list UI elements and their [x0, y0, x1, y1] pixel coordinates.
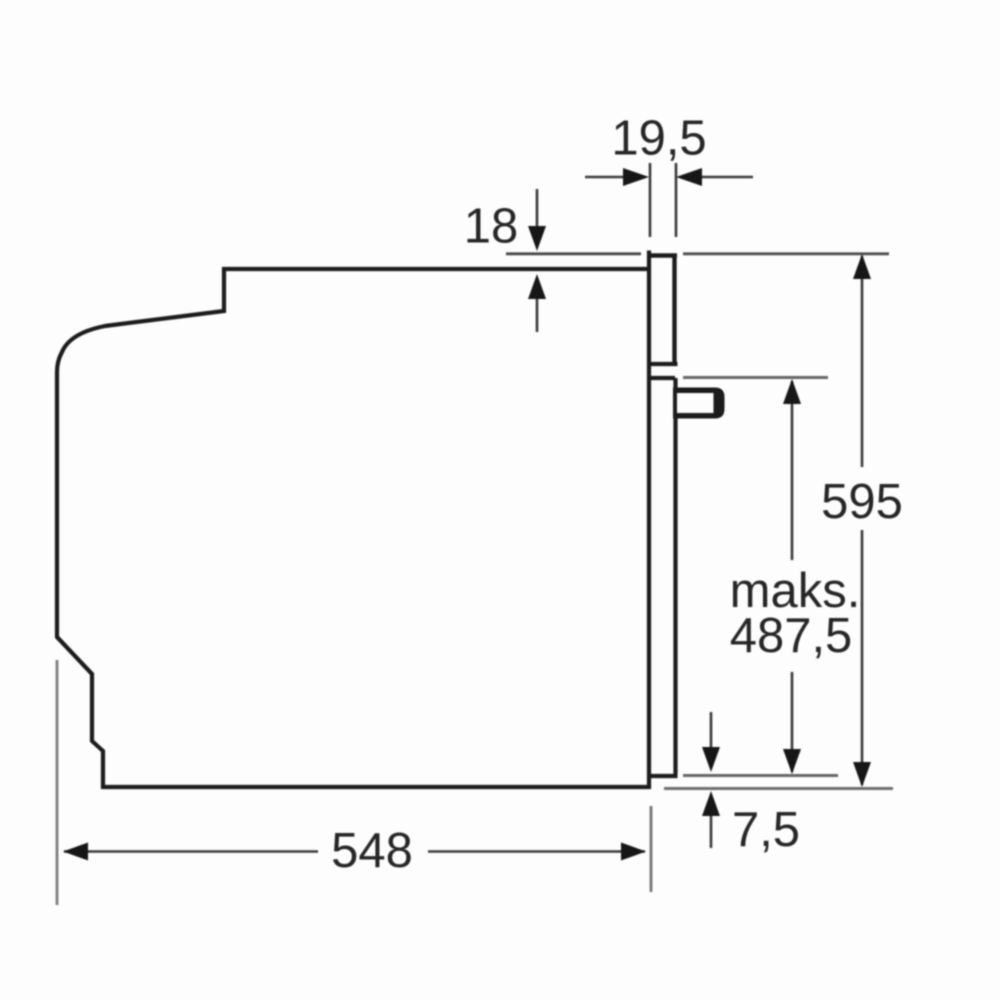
extension line: 548 right (gray)	[650, 806, 653, 892]
svg-text:19,5: 19,5	[611, 112, 706, 166]
door outer face	[647, 251, 651, 790]
oven body outline	[57, 269, 651, 787]
dim 548: right arrow	[621, 843, 646, 861]
extension line: handle top ref (gray)	[683, 376, 828, 379]
dim 7,5: up arrow	[710, 815, 713, 848]
dim 18: up arrow	[536, 296, 539, 332]
dim 19,5: right arrow	[698, 176, 753, 179]
door notch bottom	[648, 376, 675, 380]
dim 18: down arrow	[536, 189, 539, 228]
svg-text:548: 548	[331, 824, 413, 878]
extension line: door bottom level (gray)	[683, 774, 838, 777]
door bottom step	[650, 774, 678, 778]
dim 19,5: left arrow	[585, 176, 628, 179]
dim 548: left arrow	[63, 843, 88, 861]
svg-text:487,5: 487,5	[730, 609, 853, 663]
dim 548: line	[64, 850, 318, 853]
dim maks 487,5: down arrow	[783, 749, 801, 774]
handle	[673, 388, 725, 419]
extension line: oven bottom level (gray)	[664, 787, 893, 790]
extension line: 548 left (gray)	[56, 660, 59, 905]
extension line: door top level (gray)	[506, 252, 641, 255]
door top cap	[647, 253, 677, 258]
svg-text:7,5: 7,5	[732, 803, 800, 857]
svg-text:18: 18	[464, 200, 519, 254]
door notch top	[648, 362, 678, 366]
dim 595: up arrow	[853, 254, 871, 279]
svg-text:595: 595	[821, 475, 903, 529]
door inner face lower	[673, 378, 677, 775]
dim 7,5: down arrow	[710, 712, 713, 748]
dim maks 487,5: up arrow	[783, 379, 801, 404]
dim 19,5: extension lines	[649, 163, 652, 237]
dim maks 487,5: line	[791, 381, 794, 560]
door inner face upper	[672, 254, 676, 364]
dim 595: line	[861, 256, 864, 467]
dim 595: down arrow	[853, 762, 871, 787]
